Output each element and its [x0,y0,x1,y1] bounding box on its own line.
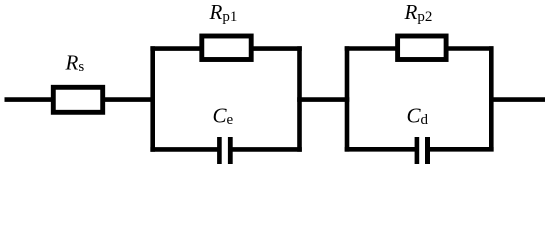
wire left terminal [5,97,54,102]
resistor Rs [53,87,102,112]
block2 bottom-right wire [428,147,494,152]
capacitor Cd left plate [415,137,420,164]
block2 top-left wire [345,46,398,51]
wire Rs to block1 [105,97,155,102]
resistor Rp1 [202,36,251,60]
capacitor Ce left plate [217,137,222,164]
wire block1 to block2 [297,97,349,102]
wire right terminal [489,97,545,102]
block1 top-left wire [150,46,202,51]
capacitor Ce right plate [228,137,233,164]
block1 bottom-left wire [150,147,219,152]
block1 right vertical wire [297,46,302,151]
block2 left vertical wire [345,46,350,151]
capacitor Cd right plate [425,137,430,164]
block2 right vertical wire [489,46,494,151]
block2 bottom-left wire [345,147,417,152]
block2 top-right wire [446,46,494,51]
block1 bottom-right wire [231,147,302,152]
resistor Rp2 [398,36,447,60]
block1 left vertical wire [150,46,155,151]
block1 top-right wire [251,46,302,51]
